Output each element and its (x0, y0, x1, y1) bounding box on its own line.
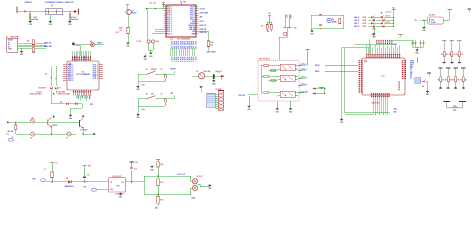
svg-text:R3: R3 (261, 26, 263, 28)
svg-text:PIO0_8: PIO0_8 (68, 78, 73, 80)
svg-text:VCC_3V3: VCC_3V3 (149, 2, 156, 4)
svg-text:10k: 10k (465, 79, 468, 81)
svg-text:RESET: RESET (167, 11, 172, 13)
svg-text:VCC_IO: VCC_IO (386, 12, 393, 14)
svg-text:VIN_ISO: VIN_ISO (238, 95, 245, 97)
svg-text:OPTO_3: OPTO_3 (301, 77, 308, 79)
svg-text:C12: C12 (134, 168, 137, 170)
svg-text:PIO0_1: PIO0_1 (68, 65, 73, 67)
svg-text:PIO1_8: PIO1_8 (93, 78, 98, 80)
svg-text:BC817: BC817 (52, 125, 57, 127)
svg-text:C5: C5 (161, 69, 163, 71)
svg-text:D6: D6 (30, 137, 32, 139)
svg-text:R9: R9 (441, 54, 443, 56)
svg-text:10uF 16V: 10uF 16V (204, 71, 212, 73)
svg-text:VCC_ISO: VCC_ISO (301, 91, 309, 93)
svg-text:X2: X2 (410, 76, 412, 78)
svg-text:S2: S2 (146, 94, 148, 96)
svg-text:C9: C9 (196, 71, 198, 73)
svg-text:10k: 10k (119, 30, 122, 32)
svg-text:TXD0: TXD0 (410, 60, 414, 62)
svg-text:Q2: Q2 (332, 19, 334, 21)
svg-text:C6: C6 (161, 94, 163, 96)
svg-text:USB_DP: USB_DP (189, 27, 195, 29)
svg-text:R5: R5 (27, 41, 29, 43)
svg-text:PIO2_5: PIO2_5 (190, 17, 195, 19)
svg-text:USB_DP: USB_DP (200, 25, 207, 27)
svg-text:LED_B: LED_B (354, 20, 360, 22)
svg-text:12.000MHZ HC49US: 12.000MHZ HC49US (45, 1, 65, 4)
svg-text:PIO3_9: PIO3_9 (190, 57, 192, 62)
svg-text:INT1: INT1 (410, 66, 413, 68)
svg-text:PIO0_1: PIO0_1 (167, 8, 172, 10)
svg-text:XOUT: XOUT (200, 21, 204, 23)
svg-text:XTALIN: XTALIN (25, 1, 33, 4)
svg-text:PIO1_7: PIO1_7 (93, 76, 98, 78)
svg-text:D7: D7 (66, 137, 68, 139)
svg-text:T0: T0 (410, 68, 412, 70)
svg-text:C2: C2 (218, 72, 220, 74)
svg-text:470R LED-GRN: 470R LED-GRN (58, 93, 71, 96)
svg-text:PIO0_6: PIO0_6 (68, 74, 73, 76)
svg-text:R9: R9 (445, 79, 447, 81)
svg-text:R1: R1 (45, 73, 47, 75)
svg-text:VOUT_3V3: VOUT_3V3 (177, 174, 185, 176)
svg-text:T3 BC817: T3 BC817 (80, 130, 87, 132)
svg-text:LED_C: LED_C (354, 23, 360, 25)
svg-text:OPTO_2: OPTO_2 (301, 69, 308, 71)
svg-text:USB_DM: USB_DM (200, 29, 207, 31)
svg-text:PIO1_5: PIO1_5 (167, 33, 172, 35)
svg-text:PIO3_0: PIO3_0 (170, 57, 172, 62)
svg-text:ISP_EN: ISP_EN (8, 131, 15, 133)
svg-text:R9: R9 (437, 79, 439, 81)
svg-text:PIO3_5: PIO3_5 (181, 57, 183, 62)
svg-text:PIO3_6: PIO3_6 (183, 57, 185, 62)
svg-text:10k: 10k (6, 134, 9, 136)
svg-text:fitted dnf: fitted dnf (71, 18, 79, 21)
svg-text:12.0M: 12.0M (431, 22, 436, 24)
svg-text:R9: R9 (456, 54, 458, 56)
svg-text:BC857: BC857 (132, 13, 137, 15)
svg-text:PIO0_7: PIO0_7 (167, 21, 172, 23)
svg-text:RXD0: RXD0 (410, 62, 414, 64)
svg-text:PIO1_0: PIO1_0 (93, 65, 98, 67)
svg-text:C11: C11 (87, 174, 90, 176)
svg-text:PIO0_2: PIO0_2 (68, 66, 73, 68)
svg-text:USB_DM: USB_DM (200, 32, 207, 34)
svg-text:R28: R28 (160, 199, 163, 201)
svg-text:OPTO_1: OPTO_1 (301, 64, 308, 66)
svg-text:SWDIO: SWDIO (83, 56, 85, 62)
svg-text:PIO3_0: PIO3_0 (192, 57, 194, 62)
svg-text:F1: F1 (56, 162, 58, 164)
svg-text:R9: R9 (452, 79, 454, 81)
svg-text:PIO2_6: PIO2_6 (190, 19, 195, 21)
svg-text:12MHz: 12MHz (332, 21, 337, 23)
svg-text:PIO3_1: PIO3_1 (172, 57, 174, 62)
svg-text:JP1: JP1 (372, 29, 375, 31)
svg-text:10k: 10k (461, 54, 464, 56)
svg-text:PIO1_1: PIO1_1 (167, 25, 172, 27)
svg-text:XTALOUT: XTALOUT (65, 1, 75, 4)
svg-text:S1: S1 (146, 69, 148, 71)
svg-text:PIO0_0: PIO0_0 (167, 6, 172, 8)
svg-text:1k5: 1k5 (210, 45, 213, 47)
svg-text:Q3 OSC: Q3 OSC (429, 15, 436, 17)
svg-text:USB_CONN: USB_CONN (207, 51, 217, 53)
svg-text:PIO3_8: PIO3_8 (187, 57, 189, 62)
svg-text:VCC33: VCC33 (200, 8, 205, 10)
svg-text:IC3: IC3 (382, 76, 385, 78)
svg-text:D5: D5 (31, 117, 33, 119)
svg-text:RTS: RTS (90, 104, 93, 106)
svg-text:SWCLK: SWCLK (73, 56, 75, 63)
svg-text:100n: 100n (141, 109, 145, 111)
svg-text:LPC1114FBD48: LPC1114FBD48 (76, 73, 89, 76)
svg-text:R9: R9 (449, 54, 451, 56)
svg-text:2k2: 2k2 (267, 31, 270, 33)
svg-text:INT0: INT0 (410, 64, 413, 66)
svg-text:OPTO_4: OPTO_4 (301, 83, 308, 86)
svg-text:PIO0_9: PIO0_9 (68, 80, 73, 82)
svg-text:PIO3_1: PIO3_1 (194, 57, 196, 62)
svg-text:3V3: 3V3 (135, 162, 138, 164)
svg-text:100n: 100n (141, 85, 145, 87)
svg-text:MOSI: MOSI (315, 65, 320, 67)
svg-text:R2 470R: R2 470R (39, 86, 47, 89)
svg-text:T1: T1 (410, 70, 412, 72)
svg-text:R27: R27 (160, 182, 163, 184)
svg-text:PIO1_6: PIO1_6 (93, 74, 98, 76)
svg-text:R9: R9 (460, 79, 462, 81)
svg-text:X3 OUT: X3 OUT (196, 176, 203, 178)
svg-text:R26: R26 (160, 164, 163, 166)
svg-text:PIO3_2: PIO3_2 (175, 57, 177, 62)
svg-text:PIO0_6: PIO0_6 (167, 19, 172, 21)
svg-text:Q1: Q1 (51, 5, 54, 7)
svg-text:PIO1_2: PIO1_2 (167, 27, 172, 29)
svg-text:USB_VBUS: USB_VBUS (200, 13, 209, 15)
svg-text:fitted dnf: fitted dnf (31, 18, 39, 21)
svg-text:VDD: VDD (183, 1, 186, 3)
svg-text:PIO3_7: PIO3_7 (185, 57, 187, 62)
svg-text:T2: T2 (132, 11, 134, 13)
svg-text:VSS: VSS (192, 31, 195, 33)
svg-text:RESET: RESET (151, 69, 158, 71)
svg-text:PIO2_2: PIO2_2 (190, 11, 195, 13)
svg-text:100n: 100n (156, 41, 160, 43)
svg-text:PIO0_3: PIO0_3 (68, 68, 73, 70)
svg-text:D1: D1 (59, 87, 61, 89)
svg-text:C3 C4: C3 C4 (136, 40, 141, 43)
svg-text:PIO0_5: PIO0_5 (167, 17, 172, 19)
svg-text:X1: X1 (410, 78, 412, 80)
svg-text:PIO0_3: PIO0_3 (167, 13, 172, 15)
svg-text:PIO0_7: PIO0_7 (68, 76, 73, 78)
svg-text:F1: F1 (44, 169, 46, 171)
svg-text:LED_D: LED_D (354, 26, 360, 28)
svg-text:USB_DM: USB_DM (44, 46, 52, 48)
svg-text:MBR0520LT: MBR0520LT (65, 186, 74, 188)
svg-text:PIO1_3: PIO1_3 (167, 29, 172, 31)
svg-text:PIO2_0: PIO2_0 (190, 6, 195, 8)
svg-text:3V3: 3V3 (116, 186, 119, 188)
svg-text:D3: D3 (90, 41, 92, 43)
svg-text:470R LED-RED: 470R LED-RED (30, 93, 43, 96)
svg-text:PIO3_3: PIO3_3 (177, 57, 179, 62)
svg-text:PIO1_2: PIO1_2 (93, 68, 98, 70)
svg-text:PIO1_1: PIO1_1 (93, 66, 98, 68)
svg-text:PIO0_5: PIO0_5 (68, 72, 73, 74)
svg-text:MISO: MISO (315, 71, 320, 73)
svg-text:USB_DM: USB_DM (189, 29, 196, 31)
svg-text:RESET: RESET (171, 69, 176, 71)
svg-text:PIO2_3: PIO2_3 (190, 13, 195, 15)
svg-text:PIO1_5: PIO1_5 (93, 72, 98, 74)
svg-text:PIO1_0: PIO1_0 (167, 23, 172, 25)
svg-text:PIO2_1: PIO2_1 (190, 8, 195, 10)
svg-text:D9: D9 (422, 86, 424, 88)
svg-text:USB_DP: USB_DP (44, 42, 52, 44)
svg-text:OK1 TLP281-4: OK1 TLP281-4 (259, 58, 271, 61)
